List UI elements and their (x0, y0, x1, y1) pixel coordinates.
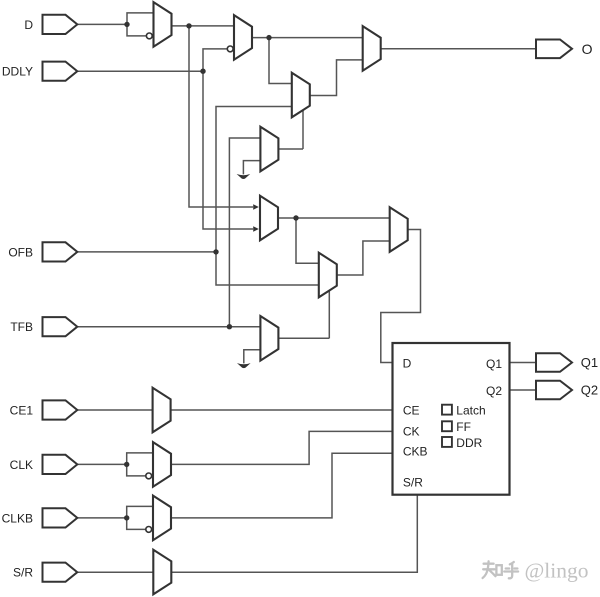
svg-text:CLK: CLK (10, 458, 33, 472)
svg-text:D: D (24, 18, 33, 32)
svg-text:@lingo: @lingo (525, 559, 589, 583)
svg-text:S/R: S/R (13, 566, 33, 580)
svg-text:CE: CE (403, 403, 420, 417)
svg-text:DDLY: DDLY (2, 65, 33, 79)
svg-text:Q1: Q1 (486, 357, 502, 371)
svg-text:Q2: Q2 (486, 384, 502, 398)
svg-text:Latch: Latch (456, 403, 485, 417)
svg-text:S/R: S/R (403, 476, 423, 490)
svg-text:CLKB: CLKB (2, 511, 33, 525)
svg-text:Q1: Q1 (581, 355, 598, 370)
svg-text:FF: FF (456, 420, 471, 434)
svg-text:DDR: DDR (456, 436, 482, 450)
svg-text:CKB: CKB (403, 445, 428, 459)
svg-text:Q2: Q2 (581, 383, 598, 398)
svg-text:D: D (403, 357, 412, 371)
svg-text:TFB: TFB (10, 320, 33, 334)
svg-text:OFB: OFB (8, 245, 33, 259)
svg-text:CK: CK (403, 424, 420, 438)
svg-text:CE1: CE1 (10, 403, 34, 417)
svg-text:O: O (582, 41, 593, 57)
